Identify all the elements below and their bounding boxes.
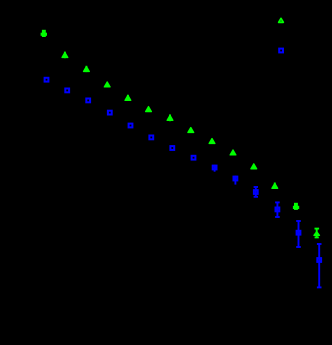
- marker B13: [297, 231, 301, 235]
- errorbar G5: [127, 95, 129, 101]
- marker B14: [317, 258, 321, 262]
- errorbar B13: [296, 221, 301, 247]
- marker G6: [146, 107, 152, 112]
- marker B6: [149, 136, 153, 140]
- errorbar G12: [274, 183, 276, 190]
- marker B4: [108, 111, 112, 115]
- errorbar B11: [254, 187, 258, 197]
- marker B7: [170, 146, 174, 150]
- marker B11: [254, 190, 258, 194]
- green series error bars: [65, 52, 319, 238]
- marker G1 with error bar (plus shape): [41, 30, 47, 37]
- errorbar G2: [64, 52, 66, 59]
- errorbar G7: [169, 114, 171, 121]
- legend marker: open green triangle: [279, 18, 284, 22]
- marker B5: [129, 124, 133, 128]
- marker G10: [230, 150, 236, 155]
- errorbar B10: [234, 176, 236, 185]
- marker G8: [188, 128, 194, 133]
- marker G2: [62, 53, 68, 58]
- marker G14: [314, 232, 320, 236]
- marker G13 with error bar (plus shape): [293, 203, 299, 210]
- marker B12: [276, 208, 280, 212]
- errorbar G14: [315, 228, 320, 238]
- green series markers: filled triangles: [41, 30, 320, 236]
- errorbar B9: [214, 165, 216, 172]
- errorbar B14: [317, 244, 322, 287]
- marker B9: [213, 166, 217, 170]
- marker B10: [234, 177, 238, 181]
- marker G9: [209, 139, 215, 144]
- marker B2: [65, 89, 69, 93]
- marker G4: [104, 82, 110, 87]
- marker G12: [272, 183, 278, 188]
- marker G5: [125, 95, 131, 100]
- blue series error bars: [215, 165, 322, 288]
- marker G7: [167, 115, 173, 120]
- legend marker: open blue square: [279, 49, 283, 53]
- marker G3: [84, 67, 90, 72]
- marker B8: [192, 156, 196, 160]
- errorbar B12: [275, 202, 280, 217]
- marker G11: [251, 164, 257, 169]
- errorbar G3: [85, 66, 87, 72]
- marker B3: [86, 99, 90, 103]
- marker B1: [45, 78, 49, 82]
- blue series markers: open squares: [45, 78, 321, 262]
